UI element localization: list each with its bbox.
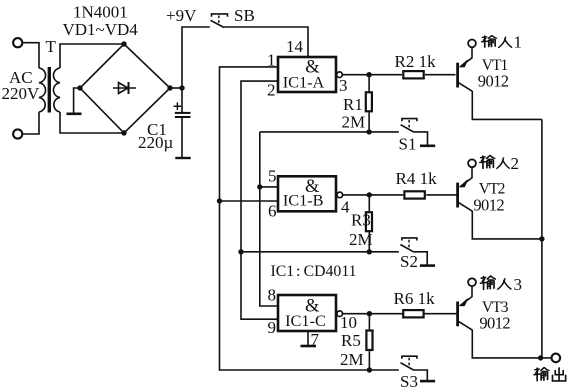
terminal (AC bottom) bbox=[13, 129, 22, 138]
ground (bridge left) bbox=[67, 88, 82, 114]
wire secondary top bbox=[60, 44, 124, 68]
svg-text:9: 9 bbox=[268, 318, 277, 337]
svg-text:220µ: 220µ bbox=[138, 133, 174, 152]
wire R4 to base bbox=[426, 194, 457, 196]
switch SB bbox=[211, 14, 228, 28]
svg-text:7: 7 bbox=[311, 330, 320, 349]
svg-text:R5: R5 bbox=[341, 331, 361, 350]
terminal (AC top) bbox=[13, 38, 22, 47]
node bottom bbox=[121, 130, 126, 135]
svg-text:6: 6 bbox=[268, 202, 277, 221]
svg-text:S1: S1 bbox=[399, 135, 417, 154]
svg-text:3: 3 bbox=[339, 76, 348, 95]
wire R2 to base bbox=[425, 74, 456, 76]
node pin6 bbox=[217, 198, 222, 203]
wire R6 to base bbox=[425, 313, 457, 315]
wire gateC out bbox=[342, 313, 402, 315]
svg-text:IC1-B: IC1-B bbox=[283, 191, 324, 210]
wire pin5 bus bbox=[260, 187, 278, 306]
svg-text:S2: S2 bbox=[400, 252, 418, 271]
NAND gate IC1-B bbox=[278, 176, 336, 211]
wire to output terminal bbox=[541, 357, 552, 359]
transformer T secondary bbox=[53, 68, 60, 112]
wire pin6 bbox=[220, 200, 279, 202]
svg-text:R2 1k: R2 1k bbox=[395, 52, 437, 71]
NAND gate IC1-C bbox=[278, 295, 336, 331]
node C1/+9V bbox=[179, 85, 184, 90]
svg-text:IC1:CD4011: IC1:CD4011 bbox=[271, 263, 357, 280]
svg-text:14: 14 bbox=[286, 37, 304, 56]
svg-text:2: 2 bbox=[511, 154, 520, 173]
svg-text:2M: 2M bbox=[342, 113, 366, 132]
transistor VT3 bbox=[458, 278, 541, 358]
wire pin2 bus bbox=[241, 81, 278, 319]
switch S3 bbox=[401, 356, 436, 381]
resistor R3 bbox=[366, 195, 372, 252]
inversion bubble pin 4 bbox=[337, 192, 343, 198]
svg-text:2M: 2M bbox=[349, 230, 373, 249]
node C out bbox=[367, 311, 372, 316]
transformer T primary bbox=[39, 68, 46, 112]
wire gateB out bbox=[343, 194, 404, 196]
bridge rectifier diamond bbox=[80, 44, 170, 133]
svg-text:9012: 9012 bbox=[478, 72, 509, 91]
label 输入1 bbox=[482, 33, 522, 52]
resistor R1 bbox=[366, 75, 372, 132]
switch S1 bbox=[401, 119, 436, 146]
label 输出 bbox=[534, 368, 566, 381]
svg-text:4: 4 bbox=[341, 198, 350, 217]
wire bridge to node bbox=[170, 87, 182, 89]
node B out bbox=[367, 192, 372, 197]
node left bbox=[77, 85, 82, 90]
svg-text:R3: R3 bbox=[351, 211, 371, 230]
transformer core bbox=[48, 67, 51, 113]
node right bbox=[167, 85, 172, 90]
terminal output bbox=[552, 354, 561, 363]
wire bbox=[22, 112, 39, 134]
wire S2 row bbox=[241, 251, 399, 253]
svg-text:10: 10 bbox=[340, 313, 357, 332]
svg-text:IC1-A: IC1-A bbox=[283, 73, 325, 92]
node VT2 rail bbox=[539, 236, 544, 241]
switch S2 bbox=[400, 238, 435, 266]
svg-text:9012: 9012 bbox=[473, 195, 504, 214]
pin7 ground of IC1-C bbox=[301, 331, 317, 346]
resistor R5 bbox=[366, 314, 372, 370]
svg-text:5: 5 bbox=[268, 167, 277, 186]
wire pin1 bus bbox=[220, 67, 370, 370]
svg-text:R4 1k: R4 1k bbox=[396, 169, 438, 188]
node R3 bottom bbox=[367, 249, 372, 254]
node top bbox=[121, 41, 126, 46]
resistor R4 bbox=[404, 191, 424, 198]
resistor R6 bbox=[403, 310, 423, 317]
svg-text:R6 1k: R6 1k bbox=[394, 289, 436, 308]
label 输入2 bbox=[480, 154, 519, 173]
transistor VT2 bbox=[458, 159, 542, 238]
svg-text:R1: R1 bbox=[343, 95, 363, 114]
svg-text:1: 1 bbox=[514, 33, 523, 52]
node S2 bus bbox=[238, 249, 243, 254]
svg-text:3: 3 bbox=[514, 275, 523, 294]
inversion bubble pin 3 bbox=[337, 72, 343, 78]
node output bbox=[538, 355, 543, 360]
wire +9V riser bbox=[182, 27, 210, 88]
wire S3 row bbox=[369, 369, 399, 371]
node R5 bottom bbox=[367, 367, 372, 372]
svg-text:1: 1 bbox=[267, 51, 276, 70]
wire gateA out bbox=[342, 74, 402, 76]
svg-text:220V: 220V bbox=[2, 84, 41, 103]
wire collector rail bbox=[541, 119, 543, 358]
wire bbox=[22, 43, 39, 68]
svg-text:S3: S3 bbox=[400, 372, 418, 389]
svg-text:8: 8 bbox=[268, 286, 277, 305]
svg-text:+9V: +9V bbox=[166, 6, 197, 25]
capacitor C1 bbox=[174, 88, 191, 158]
wire S1 riser bbox=[259, 132, 261, 187]
node pin5 bbox=[257, 184, 262, 189]
svg-text:2M: 2M bbox=[340, 350, 364, 369]
wire S1 row bbox=[260, 131, 399, 133]
node R1 bottom bbox=[366, 129, 371, 134]
transistor VT1 bbox=[458, 40, 542, 120]
wire SB to pin14 bbox=[224, 27, 308, 57]
diode VD inside bridge bbox=[113, 82, 136, 94]
inversion bubble pin 10 bbox=[337, 311, 343, 317]
svg-text:VD1~VD4: VD1~VD4 bbox=[63, 20, 139, 39]
svg-text:T: T bbox=[46, 37, 57, 56]
resistor R2 bbox=[403, 71, 423, 78]
wire secondary bottom bbox=[60, 112, 124, 133]
svg-text:9012: 9012 bbox=[479, 314, 510, 333]
svg-text:1N4001: 1N4001 bbox=[73, 3, 128, 22]
label 输入3 bbox=[481, 275, 522, 294]
NAND gate IC1-A bbox=[278, 57, 336, 92]
svg-text:SB: SB bbox=[234, 6, 255, 25]
svg-text:2: 2 bbox=[267, 81, 276, 100]
node A out bbox=[366, 72, 371, 77]
svg-text:IC1-C: IC1-C bbox=[285, 311, 326, 330]
